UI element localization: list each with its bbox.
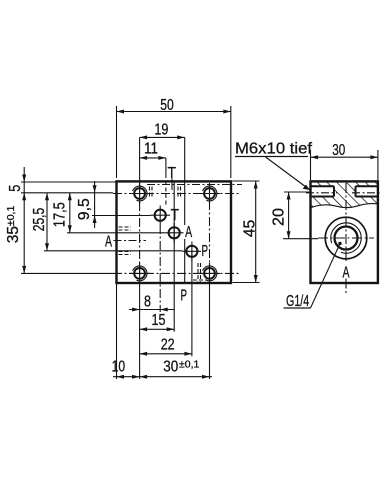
- left dims extension lines: [21, 181, 117, 183]
- dim 50 extension lines: [116, 106, 118, 178]
- dim 45 line: [255, 181, 257, 283]
- svg-text:P: P: [181, 288, 188, 305]
- svg-text:5: 5: [7, 185, 24, 192]
- svg-text:25,5: 25,5: [31, 208, 48, 232]
- hatch bottom strip: [312, 197, 377, 208]
- svg-text:22: 22: [161, 337, 175, 354]
- svg-text:A: A: [105, 234, 112, 251]
- svg-text:P: P: [202, 243, 209, 260]
- port hole P: [186, 246, 197, 257]
- hidden port dashes near left edge: [119, 187, 181, 255]
- T centerline down to 8 dim: [159, 225, 161, 312]
- 11 dim right extension: [165, 158, 167, 178]
- front view body outline: [117, 181, 232, 283]
- corner hole bores: [134, 188, 215, 279]
- dim 22 line: [140, 353, 192, 355]
- svg-text:A: A: [343, 265, 350, 282]
- svg-text:17,5: 17,5: [52, 202, 69, 227]
- svg-text:10: 10: [112, 359, 126, 376]
- dim 5 / 35 vertical line: [23, 167, 25, 274]
- dim 30 side extension lines: [310, 150, 312, 180]
- left edge extension below: [116, 283, 118, 379]
- vertical centerline right hole column: [209, 185, 211, 281]
- svg-text:T: T: [167, 165, 176, 182]
- side view outline: [311, 181, 378, 283]
- svg-text:30: 30: [332, 142, 345, 159]
- svg-text:15: 15: [152, 312, 166, 329]
- svg-text:50: 50: [160, 97, 174, 114]
- dim 15 line: [140, 328, 175, 330]
- port A crosshair horizontal: [318, 237, 374, 239]
- G1/4 leader line: [311, 244, 341, 309]
- port hole T: [155, 210, 166, 221]
- thread hole right in section: [356, 186, 378, 196]
- dim 20 side line: [288, 192, 290, 239]
- M6 leader line: [266, 157, 310, 190]
- thread arcs of corner holes: [133, 186, 217, 281]
- dim 11 line: [140, 157, 166, 159]
- dim 9,5 line (outside arrows): [94, 181, 96, 228]
- M6 underline: [235, 156, 308, 158]
- port A vertical centerline: [345, 183, 347, 262]
- port A inner circle: [335, 227, 358, 250]
- port hole A: [169, 227, 180, 238]
- svg-text:20: 20: [271, 208, 288, 226]
- wavy break line: [311, 204, 377, 208]
- vertical centerline left hole column: [139, 137, 141, 186]
- dim 50 line: [117, 111, 231, 113]
- svg-text:T: T: [171, 207, 180, 224]
- A side-port centerline: [114, 240, 147, 242]
- hatch top strip: [312, 182, 377, 186]
- dim 19 line: [140, 136, 185, 138]
- T label leader top: [171, 179, 173, 191]
- dim 25,5 line: [46, 193, 48, 251]
- svg-text:19: 19: [154, 122, 168, 139]
- svg-text:8: 8: [144, 294, 151, 311]
- crosshairs corner holes: [129, 183, 220, 284]
- horizontal centerline bottom hole row: [21, 272, 113, 274]
- svg-text:45: 45: [242, 220, 259, 238]
- dim 30 side line: [311, 156, 378, 158]
- thread hole centerlines: [306, 192, 337, 194]
- G1/4 underline: [284, 307, 311, 309]
- port A thread arc: [331, 223, 361, 253]
- svg-text:30: 30: [163, 359, 178, 376]
- dim 10 / 30 bottom line: [113, 376, 212, 378]
- dim 8 bottom (outside arrows): [129, 309, 174, 311]
- svg-text:M6x10 tief: M6x10 tief: [235, 140, 313, 157]
- 19 dim right extension into part (gap at A label): [184, 137, 186, 225]
- horizontal centerline top hole row: [21, 192, 113, 194]
- hidden port dashes near bottom edge: [193, 263, 207, 282]
- dim 20 side extension lines: [284, 191, 311, 193]
- svg-text:9,5: 9,5: [76, 198, 93, 220]
- svg-text:11: 11: [144, 141, 158, 158]
- dim 17,5 line: [69, 193, 71, 233]
- svg-text:G1/4: G1/4: [286, 293, 309, 310]
- svg-text:A: A: [185, 224, 192, 241]
- svg-text:±0,1: ±0,1: [179, 359, 200, 371]
- A centerline down to 15 dim: [173, 182, 175, 332]
- hidden dash-dot line below top edge: [147, 184, 242, 186]
- P centerline down to 22 dim: [191, 251, 193, 356]
- hatch middle web: [334, 186, 356, 196]
- port A outer circle: [325, 217, 367, 259]
- dim 45 extension lines: [233, 180, 260, 182]
- thread hole left in section: [311, 186, 335, 196]
